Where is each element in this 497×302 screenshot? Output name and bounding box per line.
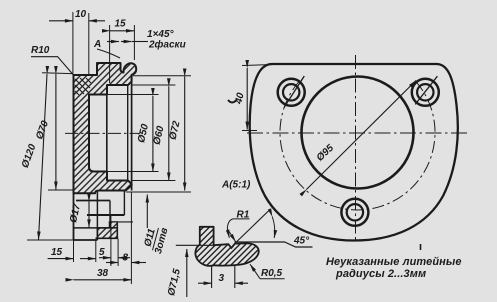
outer flange contour [250,64,458,241]
svg-text:15: 15 [51,247,63,258]
svg-text:45°: 45° [293,236,310,247]
dim 8 [106,262,118,264]
boss face vertical [96,191,98,241]
Ф11 3отв callout [146,195,148,229]
bolt hole bottom [341,199,368,226]
bolt hole top-right [412,79,439,106]
right face line [131,75,133,191]
bolt hole bottom edge [74,227,110,229]
ext lines [73,240,75,262]
svg-text:38: 38 [97,268,109,279]
detail shape [195,227,258,266]
dim Ф50 [152,96,154,172]
dim Ф70 [55,74,57,190]
crosshatch at R10 fillet corner [75,78,91,95]
vertical centerline [355,55,357,243]
dim 3 [211,265,213,288]
bolt boss region hatched [97,228,117,238]
svg-text:R10: R10 [31,45,50,56]
horizontal centerline [247,132,468,134]
boss bottom edge [96,237,119,239]
boss inner vertical [109,201,111,228]
45 deg chamfer line [235,209,271,244]
svg-text:8: 8 [123,253,129,264]
top dim 15 [109,25,111,83]
bore chamfer edge vertical [127,85,129,181]
stray mark [228,100,237,102]
svg-text:A: A [93,39,101,50]
dim 40 [246,68,248,130]
svg-text:2фаски: 2фаски [148,39,186,51]
svg-text:5: 5 [99,247,105,258]
bolt hole top edge [76,200,110,202]
dim Ф95 diagonal [306,81,416,190]
top dim 10 [72,12,74,74]
dim Ф72 [184,77,186,191]
dim Ф17 [88,202,90,228]
big circle Ф72 [302,77,414,189]
dim Ф60 [168,86,170,180]
bolt circle Ф95 dash-dot [280,81,435,210]
section material upper (hatched body) [74,63,137,193]
boss outer vertical [116,222,118,238]
svg-text:R0,5: R0,5 [261,268,283,279]
spigot bottom vertical [123,191,125,216]
svg-text:радиусы 2...3мм: радиусы 2...3мм [335,268,426,280]
centerline axis [65,132,140,134]
svg-text:A(5:1): A(5:1) [221,180,251,191]
dim Ф120 [39,74,48,240]
ext line for Ф11 [109,221,133,223]
top break line stub [200,226,214,228]
reference surface line right [235,242,313,247]
bore step vertical (Ф50/Ф60 step) [106,85,108,181]
svg-text:1×45°: 1×45° [147,29,175,40]
dim Ф71,5 [186,249,188,297]
dim 15 bottom [48,258,74,260]
svg-text:10: 10 [75,9,87,20]
chamfer callout 1x45 2 фаски [107,41,119,43]
bolt boss notch hatched [109,222,117,228]
stray mark 2 [420,244,422,250]
dim 38 [74,279,132,281]
bolt hole top-left [278,79,305,106]
45 deg angle arc with arrows [272,217,275,239]
dim 5 [99,257,111,259]
reference surface line left [176,244,214,246]
svg-text:3: 3 [219,273,225,284]
flange left edge lower [73,190,75,240]
counterbore mid edge [87,214,124,216]
svg-text:15: 15 [115,19,127,30]
svg-text:Неуказанные литейные: Неуказанные литейные [326,256,462,268]
flange bottom edge [74,239,98,241]
